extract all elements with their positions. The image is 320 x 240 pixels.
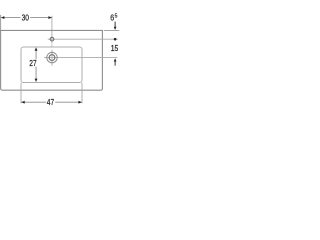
drain horizontal centerline (44, 57, 117, 59)
dimension 30 right arrow (48, 16, 51, 19)
svg-text:5: 5 (115, 13, 118, 19)
washbasin outer outline (1, 30, 103, 90)
drain vertical centerline (51, 50, 53, 66)
background (0, 0, 120, 120)
dimension junction dot (114, 38, 117, 41)
svg-text:27: 27 (29, 58, 37, 68)
dimension 30 line (1, 17, 21, 19)
dimension 47 extension line right (81, 83, 83, 104)
dimension 27 down arrow (35, 79, 38, 82)
dimension 27 line (35, 51, 37, 60)
dimension 15 up arrow with stem (114, 58, 117, 61)
dimension 30 left arrow (1, 16, 4, 19)
basin bowl inner outline (21, 47, 82, 83)
svg-text:30: 30 (22, 13, 30, 23)
svg-text:47: 47 (47, 97, 55, 107)
drain inner circle (49, 55, 55, 61)
dimension 47 right arrow (78, 101, 81, 104)
dimension 27 up arrow (35, 47, 38, 50)
dimension 30 extension line left (outer left edge extended up) (0, 15, 2, 31)
dimension 47 left arrow (21, 101, 24, 104)
tap hole horizontal centerline (48, 38, 118, 40)
dimension 6-5 down arrow with stem (114, 22, 116, 28)
dimension 47 line (21, 101, 46, 103)
svg-text:15: 15 (111, 43, 119, 53)
top edge extension line right (104, 30, 120, 32)
dimension 47 extension line left (20, 83, 22, 104)
tap hole (50, 37, 54, 41)
tap hole vertical centerline / dimension 30 right extension (51, 16, 53, 44)
drain outer circle (47, 52, 57, 62)
